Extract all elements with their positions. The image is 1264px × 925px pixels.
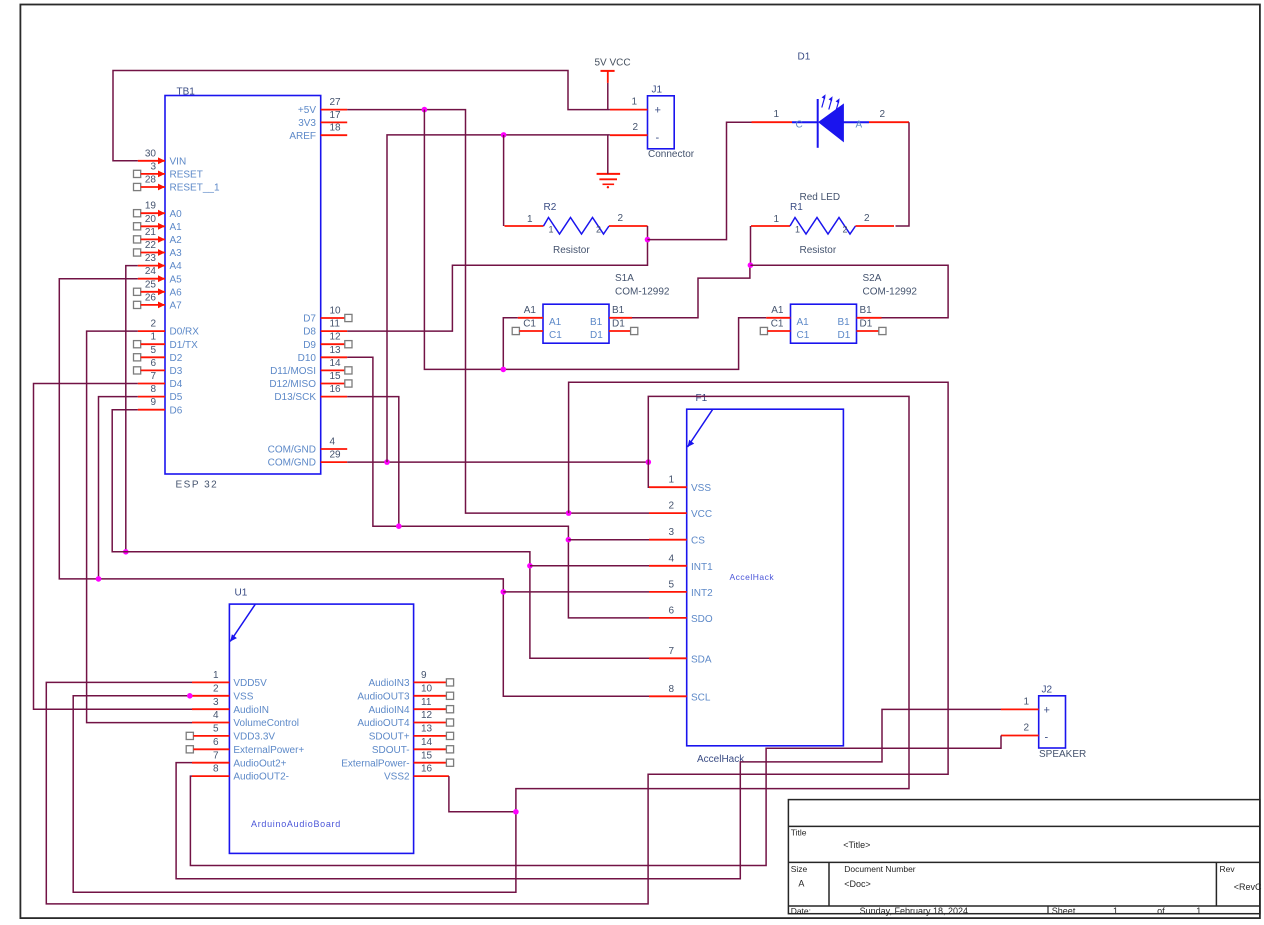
svg-text:4: 4 xyxy=(330,437,336,448)
svg-text:9: 9 xyxy=(150,397,156,408)
svg-text:2: 2 xyxy=(618,213,624,224)
svg-text:SDA: SDA xyxy=(691,654,712,665)
svg-text:1: 1 xyxy=(549,225,554,235)
svg-text:2: 2 xyxy=(880,109,886,120)
svg-text:D6: D6 xyxy=(170,405,183,416)
svg-text:VDD3.3V: VDD3.3V xyxy=(233,732,275,743)
U1 right pin 10 AudioOUT3 xyxy=(357,683,453,702)
svg-text:11: 11 xyxy=(330,319,341,330)
svg-text:3: 3 xyxy=(668,527,674,538)
wire to S2A B1 xyxy=(750,265,948,318)
svg-text:2: 2 xyxy=(1023,723,1029,734)
svg-text:2: 2 xyxy=(843,225,848,235)
wire LED anode to R1 pin 2 xyxy=(896,122,910,226)
S2A pin B1 stub xyxy=(857,317,882,319)
svg-text:ExternalPower-: ExternalPower- xyxy=(341,758,409,769)
wire CS branch xyxy=(568,539,649,541)
TB1 left pin 8 D5 xyxy=(138,384,183,403)
svg-text:RESET__1: RESET__1 xyxy=(170,183,220,194)
wire to LED cathode xyxy=(648,122,752,239)
svg-text:Resistor: Resistor xyxy=(800,245,837,256)
U1 left pin 8 AudioOUT2- xyxy=(192,764,289,783)
svg-text:A3: A3 xyxy=(170,248,183,259)
svg-text:1: 1 xyxy=(631,97,637,108)
TB1 left pin 22 A3 xyxy=(134,240,183,259)
svg-text:7: 7 xyxy=(668,646,674,657)
junction F1 VCC riser xyxy=(566,510,572,516)
svg-text:VSS: VSS xyxy=(233,691,253,702)
wire VIN to J1 pin 1 xyxy=(113,71,610,161)
svg-text:D1: D1 xyxy=(798,52,811,63)
svg-text:SDO: SDO xyxy=(691,614,713,625)
svg-text:12: 12 xyxy=(421,710,433,721)
S1A pin C1 stub (unconnected) xyxy=(512,327,543,334)
svg-text:SDOUT-: SDOUT- xyxy=(372,745,410,756)
TB1 left pin 20 A1 xyxy=(134,214,183,233)
S1A pin B1 stub xyxy=(609,317,632,319)
F1 pin 5 INT2 xyxy=(649,579,713,599)
svg-text:A6: A6 xyxy=(170,287,183,298)
TB1 right pin 16 D13/SCK xyxy=(274,384,347,403)
TB1 right pin 17 3V3 xyxy=(298,110,347,129)
svg-text:ExternalPower+: ExternalPower+ xyxy=(233,745,304,756)
F1 pin 4 INT1 xyxy=(649,553,713,573)
S2A pin C1 stub (unconnected) xyxy=(760,327,790,334)
svg-text:D9: D9 xyxy=(303,340,316,351)
LED D1 (Red LED) xyxy=(792,52,869,204)
U1 left pin 2 VSS xyxy=(192,683,254,702)
svg-text:5: 5 xyxy=(213,724,219,735)
U1 right pin 15 ExternalPower- xyxy=(341,750,453,769)
D1 pin 1 stub xyxy=(752,109,793,122)
F1 pin 1 VSS xyxy=(649,475,711,495)
TB1 right pin 11 D8 xyxy=(303,319,347,338)
svg-text:A1: A1 xyxy=(524,305,537,316)
U1 right pin 13 SDOUT+ xyxy=(369,724,454,743)
junction INT2 branch xyxy=(501,589,507,595)
wire GND riser to J1 pin 2 xyxy=(387,135,610,462)
connector J2 (SPEAKER) body xyxy=(1039,685,1087,761)
svg-text:2: 2 xyxy=(150,319,156,330)
svg-text:D1: D1 xyxy=(838,330,851,341)
junction U1 VSS xyxy=(187,693,193,699)
junction LED cathode branch xyxy=(645,237,651,243)
svg-text:+: + xyxy=(1044,705,1050,717)
svg-text:AudioOUT3: AudioOUT3 xyxy=(357,691,410,702)
TB1 left pin 30 VIN xyxy=(138,148,186,167)
svg-text:14: 14 xyxy=(421,737,433,748)
svg-text:B1: B1 xyxy=(612,305,625,316)
svg-text:of: of xyxy=(1157,906,1165,916)
power symbol 5V VCC xyxy=(595,58,631,83)
svg-text:D3: D3 xyxy=(170,366,183,377)
svg-text:3V3: 3V3 xyxy=(298,118,316,129)
svg-text:S2A: S2A xyxy=(863,273,882,284)
connector J1 body xyxy=(648,85,695,161)
svg-text:R2: R2 xyxy=(544,202,557,213)
TB1 left pin 6 D3 xyxy=(134,358,183,377)
svg-text:AudioOUT4: AudioOUT4 xyxy=(357,718,410,729)
svg-text:28: 28 xyxy=(145,175,157,186)
TB1 right pin 18 AREF xyxy=(289,123,347,142)
svg-text:D1: D1 xyxy=(860,318,873,329)
svg-text:6: 6 xyxy=(668,605,674,616)
svg-text:VSS2: VSS2 xyxy=(384,772,410,783)
svg-text:3: 3 xyxy=(150,161,156,172)
svg-text:Red LED: Red LED xyxy=(800,192,841,203)
svg-text:20: 20 xyxy=(145,214,157,225)
svg-text:ArduinoAudioBoard: ArduinoAudioBoard xyxy=(251,819,341,829)
svg-text:COM/GND: COM/GND xyxy=(268,445,316,456)
wire D13 drop xyxy=(347,397,399,527)
svg-text:AudioOut2+: AudioOut2+ xyxy=(233,758,286,769)
title block xyxy=(788,800,1262,917)
svg-text:<Title>: <Title> xyxy=(843,840,870,850)
F1 pin 2 VCC xyxy=(649,501,712,520)
TB1 right pin 10 D7 xyxy=(303,306,352,325)
U1 right pin 12 AudioOUT4 xyxy=(357,710,453,729)
S1A pin D1 stub (unconnected) xyxy=(609,327,638,334)
svg-text:C1: C1 xyxy=(549,330,562,341)
wire D8 to R2 pin 2 xyxy=(347,226,647,331)
U1 left pin 4 VolumeControl xyxy=(192,710,299,729)
svg-text:D4: D4 xyxy=(170,379,183,390)
TB1 right pin 29 COM/GND xyxy=(268,450,348,469)
S1A pin A1 stub xyxy=(518,317,543,319)
svg-text:1: 1 xyxy=(795,225,800,235)
TB1 left pin 9 D6 xyxy=(138,397,183,416)
TB1 left pin 26 A7 xyxy=(134,292,183,311)
switch S1A (COM-12992) body xyxy=(523,273,670,343)
TB1 right pin 15 D12/MISO xyxy=(269,371,352,390)
svg-text:18: 18 xyxy=(330,123,342,134)
F1 pin 3 CS xyxy=(649,527,705,547)
wire J1 pin 2 to ground symbol xyxy=(607,135,609,174)
svg-text:AudioOUT2-: AudioOUT2- xyxy=(233,772,289,783)
J1 pin 1 stub xyxy=(610,97,648,110)
svg-text:VCC: VCC xyxy=(691,509,712,520)
svg-text:D0/RX: D0/RX xyxy=(170,327,200,338)
J2 pin 2 stub xyxy=(1001,723,1039,736)
svg-text:4: 4 xyxy=(213,710,219,721)
TB1 left pin 1 D1/TX xyxy=(134,332,199,351)
svg-text:1: 1 xyxy=(213,670,219,681)
junction A5/D5 xyxy=(96,576,102,582)
svg-text:COM-12992: COM-12992 xyxy=(615,287,670,298)
svg-text:2: 2 xyxy=(213,683,219,694)
svg-text:26: 26 xyxy=(145,292,157,303)
svg-text:25: 25 xyxy=(145,279,157,290)
svg-text:7: 7 xyxy=(150,371,156,382)
svg-text:SPEAKER: SPEAKER xyxy=(1039,749,1086,760)
wire +5V rail from TB1 xyxy=(347,110,649,513)
wire S1A A1 riser xyxy=(503,318,518,370)
U1 left pin 5 VDD3.3V xyxy=(186,724,275,743)
wire F1 VSS net around block to U1 VSS xyxy=(73,396,909,892)
svg-text:Size: Size xyxy=(791,864,808,874)
svg-text:2: 2 xyxy=(632,122,638,133)
svg-text:Date:: Date: xyxy=(791,906,811,916)
svg-text:9: 9 xyxy=(421,670,427,681)
TB1 left pin 3 RESET xyxy=(134,161,203,180)
svg-text:13: 13 xyxy=(421,724,433,735)
svg-text:D5: D5 xyxy=(170,392,183,403)
junction D13 on D10 wire xyxy=(396,523,402,529)
svg-text:2: 2 xyxy=(864,213,870,224)
svg-text:11: 11 xyxy=(421,697,432,708)
U1 right pin 14 SDOUT- xyxy=(372,737,454,756)
svg-text:D2: D2 xyxy=(170,353,183,364)
svg-text:A1: A1 xyxy=(170,222,183,233)
wire D5 drop xyxy=(99,397,138,579)
svg-text:Sheet: Sheet xyxy=(1052,906,1076,916)
svg-text:15: 15 xyxy=(330,371,342,382)
wire INT1 branch xyxy=(530,565,649,567)
accelerometer F1 (AccelHack) body xyxy=(687,393,844,765)
svg-text:SCL: SCL xyxy=(691,692,711,703)
svg-text:A4: A4 xyxy=(170,261,183,272)
svg-text:+5V: +5V xyxy=(298,105,316,116)
svg-text:Document Number: Document Number xyxy=(844,864,916,874)
svg-text:29: 29 xyxy=(330,450,342,461)
svg-text:INT1: INT1 xyxy=(691,562,713,573)
wire INT2 branch xyxy=(503,591,649,593)
junction +5V branch xyxy=(422,107,428,113)
svg-text:AccelHack: AccelHack xyxy=(697,754,745,765)
wire R2 pin 1 drop xyxy=(503,135,505,226)
svg-text:INT2: INT2 xyxy=(691,588,713,599)
svg-text:D11/MOSI: D11/MOSI xyxy=(270,366,316,377)
TB1 right pin 27 +5V xyxy=(298,97,347,116)
svg-text:10: 10 xyxy=(421,683,433,694)
TB1 right pin 13 D10 xyxy=(298,345,348,364)
wire S1A B1 riser xyxy=(632,265,750,318)
svg-text:ESP 32: ESP 32 xyxy=(176,480,219,491)
svg-text:1: 1 xyxy=(1113,906,1118,916)
svg-text:6: 6 xyxy=(150,358,156,369)
wire D10 to F1 CS/SDO xyxy=(347,357,649,618)
svg-text:Sunday, February 18, 2024: Sunday, February 18, 2024 xyxy=(860,906,968,916)
svg-text:5: 5 xyxy=(668,579,674,590)
TB1 right pin 4 COM/GND xyxy=(268,437,348,456)
wire J2 pin 1 to U1 AudioOut2+ xyxy=(176,709,1001,878)
svg-text:+: + xyxy=(655,105,661,117)
svg-text:Rev: Rev xyxy=(1220,864,1236,874)
junction VSS2 on GND drop xyxy=(513,809,519,815)
svg-text:1: 1 xyxy=(1023,697,1029,708)
U1 left pin 7 AudioOut2+ xyxy=(192,750,287,769)
J1 pin 2 stub xyxy=(610,122,648,135)
ground symbol xyxy=(597,174,621,189)
resistor R2 xyxy=(505,202,648,256)
svg-text:3: 3 xyxy=(213,697,219,708)
svg-text:S1A: S1A xyxy=(615,273,634,284)
svg-text:C1: C1 xyxy=(797,330,810,341)
TB1 left pin 23 A4 xyxy=(138,253,182,272)
svg-text:A1: A1 xyxy=(549,317,562,328)
svg-text:C1: C1 xyxy=(771,318,784,329)
U1 left pin 3 AudioIN xyxy=(192,697,269,716)
wire J2 pin 2 to U1 AudioOUT2- xyxy=(190,736,1001,866)
svg-text:-: - xyxy=(1045,732,1049,744)
svg-text:16: 16 xyxy=(330,384,342,395)
svg-text:1: 1 xyxy=(668,475,674,486)
svg-text:COM-12992: COM-12992 xyxy=(863,287,918,298)
svg-text:Title: Title xyxy=(791,827,807,837)
svg-text:A: A xyxy=(856,120,863,131)
svg-text:AudioIN3: AudioIN3 xyxy=(368,678,410,689)
svg-text:AccelHack: AccelHack xyxy=(730,572,775,582)
svg-text:VSS: VSS xyxy=(691,483,711,494)
junction R1/S1A B1/S2A B1 xyxy=(748,262,754,268)
junction S1A A1 on +5V branch xyxy=(501,367,507,373)
junction F1 VSS riser on GND rail xyxy=(646,459,652,465)
svg-text:<RevC: <RevC xyxy=(1234,882,1262,892)
D1 pin 2 stub xyxy=(869,109,909,122)
svg-text:D7: D7 xyxy=(303,314,316,325)
F1 pin 8 SCL xyxy=(649,684,711,704)
svg-text:CS: CS xyxy=(691,536,705,547)
svg-text:1: 1 xyxy=(150,332,156,343)
svg-text:22: 22 xyxy=(145,240,157,251)
TB1 right pin 14 D11/MOSI xyxy=(270,358,352,377)
wire U1 VSS2 to GND xyxy=(449,776,516,812)
svg-text:14: 14 xyxy=(330,358,342,369)
svg-text:12: 12 xyxy=(330,332,342,343)
svg-text:-: - xyxy=(656,132,660,144)
U1 left pin 6 ExternalPower+ xyxy=(186,737,304,756)
svg-text:21: 21 xyxy=(145,227,157,238)
svg-text:AREF: AREF xyxy=(289,131,316,142)
wire R1 pin 1 drop xyxy=(750,226,752,265)
TB1 left pin 2 D0/RX xyxy=(138,319,199,338)
TB1 left pin 5 D2 xyxy=(134,345,183,364)
svg-text:5: 5 xyxy=(150,345,156,356)
svg-text:15: 15 xyxy=(421,750,433,761)
wire D0/RX to U1 VolumeControl xyxy=(87,331,192,722)
TB1 left pin 25 A6 xyxy=(134,279,183,298)
wire D4 to U1 AudioIN xyxy=(34,384,193,710)
svg-text:1: 1 xyxy=(773,214,779,225)
wire D6 to F1 INT1 and SDA xyxy=(112,410,649,659)
junction A4/D6 xyxy=(123,549,129,555)
svg-text:8: 8 xyxy=(668,684,674,695)
TB1 left pin 19 A0 xyxy=(134,201,183,220)
TB1 left pin 7 D4 xyxy=(138,371,183,390)
svg-text:C: C xyxy=(796,120,803,131)
TB1 left pin 24 A5 xyxy=(138,266,182,285)
svg-text:D13/SCK: D13/SCK xyxy=(274,392,316,403)
svg-text:16: 16 xyxy=(421,764,433,775)
svg-text:A0: A0 xyxy=(170,209,183,220)
svg-text:U1: U1 xyxy=(235,588,248,599)
svg-text:10: 10 xyxy=(330,306,342,317)
svg-text:A5: A5 xyxy=(170,274,183,285)
microcontroller TB1 (ESP 32) body xyxy=(165,87,321,491)
svg-text:J1: J1 xyxy=(652,85,663,96)
svg-text:Connector: Connector xyxy=(648,149,695,160)
svg-text:8: 8 xyxy=(150,384,156,395)
junction INT1 branch xyxy=(527,563,533,569)
wire +5V branch to switches A1 xyxy=(424,110,766,370)
junction R2 pin 1 on GND wire xyxy=(501,132,507,138)
audio board U1 (ArduinoAudioBoard) body xyxy=(229,588,413,854)
svg-text:A1: A1 xyxy=(771,305,784,316)
svg-text:Resistor: Resistor xyxy=(553,245,590,256)
svg-text:C1: C1 xyxy=(523,318,536,329)
svg-text:B1: B1 xyxy=(860,305,873,316)
svg-text:D1: D1 xyxy=(612,318,625,329)
U1 left pin 1 VDD5V xyxy=(192,670,267,689)
wire 5V VCC symbol drop xyxy=(607,83,609,110)
svg-text:17: 17 xyxy=(330,110,342,121)
svg-text:13: 13 xyxy=(330,345,342,356)
junction CS branch xyxy=(566,537,572,543)
svg-text:D12/MISO: D12/MISO xyxy=(269,379,316,390)
wire A4 drop xyxy=(126,266,138,552)
svg-text:B1: B1 xyxy=(838,317,851,328)
svg-text:VIN: VIN xyxy=(170,156,187,167)
svg-text:J2: J2 xyxy=(1042,685,1053,696)
svg-text:AudioIN4: AudioIN4 xyxy=(368,705,410,716)
svg-text:6: 6 xyxy=(213,737,219,748)
TB1 left pin 28 RESET__1 xyxy=(134,175,220,194)
svg-text:VolumeControl: VolumeControl xyxy=(233,718,299,729)
svg-text:D1: D1 xyxy=(590,330,603,341)
svg-text:SDOUT+: SDOUT+ xyxy=(369,732,410,743)
U1 right pin 16 VSS2 xyxy=(384,764,449,783)
J2 pin 1 stub xyxy=(1001,697,1039,710)
S2A pin A1 stub xyxy=(766,317,790,319)
svg-text:30: 30 xyxy=(145,148,157,159)
S2A pin D1 stub (unconnected) xyxy=(857,327,887,334)
svg-text:4: 4 xyxy=(668,553,674,564)
svg-text:A1: A1 xyxy=(797,317,810,328)
svg-text:8: 8 xyxy=(213,764,219,775)
svg-text:<Doc>: <Doc> xyxy=(844,879,871,889)
svg-text:VDD5V: VDD5V xyxy=(233,678,267,689)
svg-text:D1/TX: D1/TX xyxy=(170,340,199,351)
svg-text:2: 2 xyxy=(668,501,674,512)
TB1 left pin 21 A2 xyxy=(134,227,183,246)
svg-text:5V VCC: 5V VCC xyxy=(595,58,631,69)
U1 right pin 9 AudioIN3 xyxy=(368,670,453,689)
svg-text:1: 1 xyxy=(1196,906,1201,916)
svg-text:D8: D8 xyxy=(303,327,316,338)
svg-text:A: A xyxy=(798,879,804,889)
wire COM/GND 29 rail xyxy=(347,461,648,463)
svg-text:A7: A7 xyxy=(170,301,183,312)
svg-text:R1: R1 xyxy=(790,202,803,213)
U1 right pin 11 AudioIN4 xyxy=(368,697,453,716)
svg-text:24: 24 xyxy=(145,266,157,277)
svg-text:23: 23 xyxy=(145,253,157,264)
svg-text:D10: D10 xyxy=(298,353,317,364)
TB1 right pin 12 D9 xyxy=(303,332,352,351)
svg-text:TB1: TB1 xyxy=(177,87,196,98)
svg-text:RESET: RESET xyxy=(170,170,203,181)
svg-text:COM/GND: COM/GND xyxy=(268,458,316,469)
wire F1 VCC riser to U1 VDD5V xyxy=(46,382,948,904)
svg-text:1: 1 xyxy=(773,109,779,120)
svg-text:F1: F1 xyxy=(696,393,708,404)
svg-text:1: 1 xyxy=(527,214,533,225)
svg-text:B1: B1 xyxy=(590,317,603,328)
junction GND riser v1 xyxy=(384,459,390,465)
svg-text:A2: A2 xyxy=(170,235,183,246)
switch S2A (COM-12992) body xyxy=(771,273,918,343)
svg-text:2: 2 xyxy=(596,225,601,235)
